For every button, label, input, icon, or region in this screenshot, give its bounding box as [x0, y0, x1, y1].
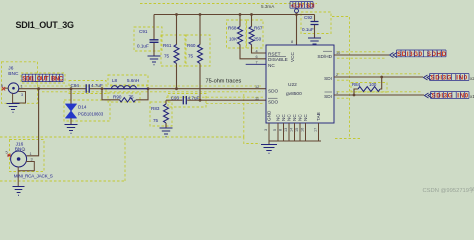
pin 2 stub and wire SDI — [334, 76, 423, 78]
svg-text:C91: C91 — [139, 29, 148, 34]
selection dashes big region mid — [0, 17, 362, 144]
junction R61 on rail — [175, 13, 178, 16]
pin 10 stub and wire SD/HD — [334, 54, 389, 56]
capacitor C93 — [171, 96, 200, 105]
selection box R60 — [186, 35, 210, 66]
IC bottom pin stubs — [269, 123, 321, 141]
selection dashes pin2 wire marquee — [337, 74, 420, 80]
capacitor C91 leg — [153, 15, 155, 57]
svg-text:U22: U22 — [288, 82, 297, 88]
svg-text:L8: L8 — [112, 78, 118, 83]
svg-text:C93: C93 — [171, 96, 180, 101]
selection box R61 — [161, 35, 185, 66]
resistor R61 — [163, 43, 179, 63]
junction power on rail — [295, 13, 298, 16]
svg-text:5.6nH: 5.6nH — [127, 78, 139, 83]
selection box J16 — [10, 140, 45, 172]
svg-text:C94: C94 — [71, 83, 80, 88]
svg-text:D14: D14 — [78, 105, 87, 110]
svg-text:17: 17 — [314, 128, 318, 132]
junction R84 on pin1 wire — [353, 94, 356, 97]
selection box C91 — [134, 27, 162, 51]
svg-text:8: 8 — [291, 40, 293, 44]
wire J16 feed vertical — [27, 89, 39, 156]
selection box D14 — [64, 100, 110, 121]
resistor R84 connection wires — [354, 77, 382, 95]
svg-text:R68: R68 — [228, 26, 237, 31]
wire B SDO- from R83 to pin 11 — [166, 99, 266, 101]
svg-text:R61: R61 — [163, 43, 172, 48]
svg-text:MINI_RCA_JACK_S: MINI_RCA_JACK_S — [14, 173, 53, 178]
svg-text:75-ohm traces: 75-ohm traces — [206, 79, 242, 85]
ground of D14 — [65, 125, 78, 134]
resistor R67 — [249, 26, 263, 45]
svg-text:15: 15 — [295, 128, 299, 132]
svg-text:J6: J6 — [8, 65, 13, 71]
svg-text:gv8500: gv8500 — [286, 91, 302, 97]
svg-text:3: 3 — [31, 158, 33, 162]
svg-text:6: 6 — [256, 55, 258, 59]
wire D14 vertical — [70, 89, 72, 104]
svg-text:10K: 10K — [229, 37, 238, 42]
svg-text:2: 2 — [23, 148, 25, 152]
op-amp U22 ic body — [266, 45, 334, 123]
svg-text:4.7uF: 4.7uF — [91, 83, 103, 88]
svg-text:75: 75 — [188, 54, 194, 59]
svg-text:SDI: SDI — [324, 76, 332, 81]
svg-text:TAB: TAB — [316, 112, 321, 121]
svg-text:VCC: VCC — [290, 51, 295, 62]
svg-text:7: 7 — [256, 61, 258, 65]
inductor L8 — [104, 78, 148, 89]
svg-text:14: 14 — [290, 128, 294, 132]
svg-text:NC: NC — [287, 114, 292, 121]
svg-text:2: 2 — [336, 73, 338, 77]
svg-text:13: 13 — [284, 128, 288, 132]
capacitor C92 leg — [314, 15, 316, 39]
wire R83 to ground — [165, 123, 167, 128]
junction R60 on rail — [199, 13, 202, 16]
selection box C94 — [69, 81, 106, 94]
resistor R60 leg — [199, 15, 201, 101]
svg-text:5: 5 — [6, 151, 8, 155]
selection dashes wire B marquee — [166, 97, 263, 103]
resistor R60 — [187, 43, 203, 63]
wire GND drop — [268, 141, 270, 145]
top power rail — [154, 14, 315, 16]
svg-text:1: 1 — [30, 152, 32, 156]
selection box J6 — [2, 62, 38, 104]
svg-text:NC: NC — [281, 114, 286, 121]
no-ERC cross J6 pin 5 — [2, 87, 5, 90]
resistor R68 leg — [240, 15, 266, 59]
svg-text:10: 10 — [336, 51, 340, 55]
port SDI3G0_SDHD — [390, 50, 447, 58]
selection dashes pin10 wire marquee — [337, 52, 386, 58]
svg-text:100: 100 — [369, 82, 377, 87]
capacitor C94 — [71, 83, 103, 93]
svg-text:DISABLE: DISABLE — [268, 57, 288, 62]
svg-text:0.1uF: 0.1uF — [137, 44, 149, 49]
junction dot D14 tap — [70, 87, 73, 90]
junction R68 on rail — [239, 13, 242, 16]
selection box R83 — [150, 102, 172, 126]
svg-text:R60: R60 — [187, 43, 196, 48]
svg-text:75: 75 — [153, 118, 159, 123]
junction R60 on wire A — [199, 99, 202, 102]
selection box net label SDI1_OUT_BNC — [21, 73, 65, 83]
ground of C91 — [148, 56, 161, 65]
capacitor C91 — [137, 29, 159, 49]
resistor R83 wire — [165, 100, 167, 104]
svg-text:12: 12 — [255, 85, 259, 89]
svg-text:SDO: SDO — [268, 88, 279, 93]
resistor R68 — [228, 26, 243, 45]
ground of U22 — [261, 145, 277, 154]
svg-text:SDO: SDO — [268, 100, 279, 105]
selection box C93 — [168, 94, 206, 108]
svg-text:J16: J16 — [16, 142, 24, 148]
svg-text:GND: GND — [267, 110, 272, 121]
no-ERC cross J16 pin 5 — [8, 154, 11, 157]
pin 1 stub and wire SDI- — [334, 94, 424, 96]
junction split L8/R90 left — [101, 87, 104, 90]
pin 7 NC stub — [246, 63, 266, 65]
junction R61 on wire A — [175, 87, 178, 90]
svg-text:4.7uF: 4.7uF — [188, 96, 200, 101]
resistor R84 — [352, 82, 380, 92]
port SDI3G_IN0 x1 — [425, 92, 474, 100]
svg-text:8: 8 — [279, 129, 283, 131]
svg-text:NC: NC — [276, 114, 281, 121]
svg-text:CSDN @9952719学习: CSDN @9952719学习 — [423, 186, 474, 194]
resistor R90 branch wires — [102, 89, 148, 100]
svg-text:NC: NC — [298, 114, 303, 121]
selection dashes big region top — [140, 3, 317, 5]
selection box L8 — [108, 75, 148, 85]
svg-text:1: 1 — [21, 85, 23, 89]
power feed wire to pin 8 — [296, 13, 298, 45]
svg-text:16: 16 — [301, 128, 305, 132]
svg-text:5: 5 — [273, 129, 277, 131]
svg-text:11: 11 — [255, 96, 259, 100]
svg-text:x2: x2 — [470, 76, 474, 81]
power net +3.3V_SDI — [290, 2, 315, 13]
svg-text:SDI: SDI — [324, 94, 332, 99]
svg-text:0.1uF: 0.1uF — [302, 27, 314, 32]
connector J16 MINI_RCA_JACK — [6, 142, 53, 187]
net label SDI1_OUT_BNC — [22, 74, 64, 82]
svg-text:4: 4 — [256, 49, 258, 53]
TVS diode D14 — [66, 104, 104, 118]
svg-text:RSET: RSET — [268, 51, 281, 56]
selection box C92 — [301, 12, 331, 34]
svg-text:R84: R84 — [352, 82, 361, 87]
resistor R90 — [113, 95, 136, 103]
selection box R68 — [227, 20, 247, 48]
resistor R61 leg — [176, 15, 178, 89]
selection dashes pin1 wire marquee — [337, 92, 421, 98]
ground of J6 — [7, 104, 20, 113]
svg-text:5.3mA: 5.3mA — [261, 4, 275, 9]
svg-text:R90: R90 — [113, 95, 122, 100]
selection box R67 — [247, 20, 264, 48]
svg-text:75: 75 — [129, 95, 135, 100]
capacitor C92 — [302, 15, 319, 32]
resistor R83 — [151, 104, 169, 123]
svg-text:SDI1_OUT_3G: SDI1_OUT_3G — [16, 20, 75, 30]
selection dashes left bottom — [0, 138, 125, 182]
svg-text:250: 250 — [254, 37, 262, 42]
svg-text:3: 3 — [264, 129, 268, 131]
bottom pin numbers — [264, 128, 318, 132]
svg-text:1: 1 — [336, 91, 338, 95]
svg-text:SD/HD: SD/HD — [317, 54, 332, 59]
ground of R83 — [160, 128, 173, 137]
selection box R84 — [351, 83, 387, 93]
svg-text:R67: R67 — [254, 26, 263, 31]
svg-text:BNC: BNC — [8, 71, 19, 77]
ground of C92 — [308, 38, 321, 47]
resistor R67 leg — [252, 15, 267, 54]
wire A main signal SDO — [19, 88, 266, 90]
svg-text:C92: C92 — [304, 15, 313, 20]
svg-text:3: 3 — [21, 93, 23, 97]
svg-text:75: 75 — [164, 54, 170, 59]
svg-text:x1: x1 — [470, 94, 474, 99]
connector J6 BNC — [1, 65, 26, 103]
junction split L8/R90 right — [147, 87, 150, 90]
svg-text:NC: NC — [292, 114, 297, 121]
selection box R90 — [108, 93, 140, 102]
junction R67 on rail — [250, 13, 253, 16]
svg-text:NC: NC — [268, 63, 275, 68]
junction R84 on pin2 wire — [380, 76, 383, 79]
svg-text:PGB1010603: PGB1010603 — [78, 112, 104, 117]
wire D14 to ground — [70, 118, 72, 125]
selection dashes wire A marquee — [20, 86, 263, 92]
svg-text:R83: R83 — [151, 106, 160, 111]
ground of J16 — [13, 187, 25, 196]
svg-text:NC: NC — [303, 114, 308, 121]
junction J16 feed on wire A — [37, 87, 40, 90]
port SDI3G_IN0 x2 — [424, 74, 474, 82]
